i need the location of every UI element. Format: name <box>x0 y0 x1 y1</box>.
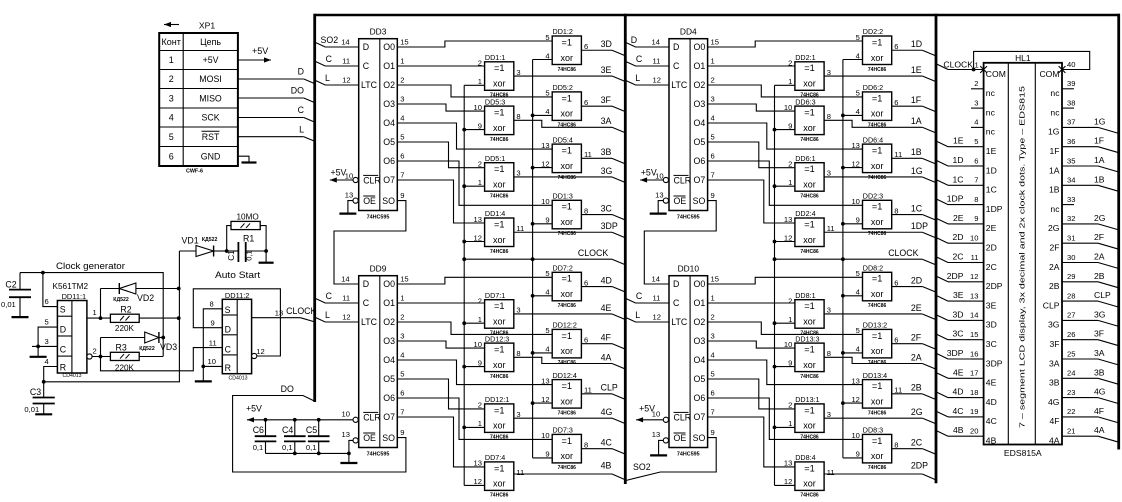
svg-text:74HC86: 74HC86 <box>868 67 887 73</box>
svg-text:nc: nc <box>986 107 996 117</box>
bus border 1 (programmer / section 1) <box>313 14 316 402</box>
svg-text:3E: 3E <box>601 65 612 75</box>
svg-text:DD1:1: DD1:1 <box>485 53 505 62</box>
wire net 4F <box>581 343 612 345</box>
svg-text:LTC: LTC <box>671 80 688 90</box>
svg-text:3: 3 <box>516 68 520 77</box>
svg-text:L: L <box>299 124 304 134</box>
flip-flop DD11.2 <box>222 299 251 373</box>
svg-text:12: 12 <box>541 395 549 404</box>
wire net C to DD10 C input <box>625 298 669 303</box>
wire DD3 O3 to gate <box>397 104 484 111</box>
svg-text:3: 3 <box>711 94 715 103</box>
svg-text:S: S <box>60 305 66 315</box>
svg-text:DD11:1: DD11:1 <box>62 292 87 301</box>
svg-text:12: 12 <box>851 159 859 168</box>
svg-text:=1: =1 <box>562 436 572 446</box>
svg-text:2: 2 <box>93 347 97 356</box>
svg-text:DD6:4: DD6:4 <box>863 135 883 144</box>
node R2 right <box>177 316 181 320</box>
svg-text:35: 35 <box>1067 156 1075 165</box>
svg-text:12: 12 <box>851 395 859 404</box>
wire clock bus right column <box>532 60 534 458</box>
svg-text:=1: =1 <box>562 37 572 47</box>
resistor R1 10MO <box>227 226 231 251</box>
svg-text:D: D <box>225 325 231 335</box>
svg-text:O7: O7 <box>383 412 395 422</box>
xor gate DD2:3 74HC86 <box>863 200 892 229</box>
svg-text:C6: C6 <box>253 425 264 435</box>
xor gate DD2:2 74HC86 <box>863 36 892 65</box>
svg-text:=1: =1 <box>494 63 504 73</box>
diode VD3 KD522 <box>101 337 145 339</box>
svg-text:10: 10 <box>655 172 663 181</box>
svg-text:xor: xor <box>493 479 506 489</box>
svg-text:R: R <box>60 363 66 373</box>
svg-text:xor: xor <box>561 109 574 119</box>
svg-text:SO: SO <box>382 433 395 443</box>
svg-text:xor: xor <box>493 79 506 89</box>
xor gate DD5:3 74HC86 <box>485 106 514 135</box>
svg-text:8: 8 <box>210 300 214 309</box>
svg-text:4A: 4A <box>601 352 612 362</box>
svg-text:7: 7 <box>711 170 715 179</box>
capacitor C5 0,1 <box>318 420 320 436</box>
svg-text:CLOCK: CLOCK <box>286 306 316 316</box>
diode VD1 KD522 <box>179 250 196 252</box>
svg-text:9: 9 <box>711 428 715 437</box>
svg-text:CLR: CLR <box>674 175 692 185</box>
svg-text:0,01: 0,01 <box>24 405 39 414</box>
svg-text:КД522: КД522 <box>202 237 218 243</box>
wire DD11.2 pin 8 S <box>203 309 222 367</box>
svg-text:2: 2 <box>711 75 715 84</box>
svg-text:1C: 1C <box>953 174 964 184</box>
svg-text:xor: xor <box>803 79 816 89</box>
svg-text:2A: 2A <box>1094 252 1105 262</box>
svg-text:1F: 1F <box>1094 136 1104 146</box>
svg-text:2D: 2D <box>953 232 964 242</box>
svg-text:1: 1 <box>788 315 792 324</box>
svg-text:4D: 4D <box>953 387 964 397</box>
svg-text:74HC86: 74HC86 <box>800 194 819 200</box>
svg-text:12: 12 <box>342 312 350 321</box>
svg-text:=1: =1 <box>872 202 882 212</box>
svg-text:O4: O4 <box>694 355 706 365</box>
wire net 2A <box>824 357 922 363</box>
svg-text:11: 11 <box>827 468 835 477</box>
svg-text:C: C <box>636 54 643 64</box>
svg-text:9: 9 <box>400 428 404 437</box>
svg-text:O5: O5 <box>383 137 395 147</box>
svg-text:SO: SO <box>382 196 395 206</box>
svg-text:2DP: 2DP <box>986 281 1003 291</box>
svg-text:11: 11 <box>653 293 661 302</box>
svg-text:DD11:2: DD11:2 <box>225 291 250 300</box>
svg-text:xor: xor <box>803 180 816 190</box>
svg-text:3A: 3A <box>1049 358 1060 368</box>
svg-text:20: 20 <box>970 427 978 436</box>
wire net 2F <box>892 343 923 345</box>
ground bypass rail <box>348 453 350 463</box>
wire CLOCK net <box>775 258 923 260</box>
svg-text:8: 8 <box>827 112 831 121</box>
svg-text:DD5:4: DD5:4 <box>553 135 573 144</box>
svg-text:GND: GND <box>201 151 221 161</box>
wire net 4D <box>581 286 612 288</box>
svg-text:1: 1 <box>478 315 482 324</box>
svg-text:D: D <box>673 42 679 52</box>
svg-text:4F: 4F <box>601 332 612 342</box>
wire DD11.2 output 13 CLOCK <box>252 317 301 319</box>
svg-text:1DP: 1DP <box>986 204 1003 214</box>
wire DD11.2 pin 9 D feedback <box>193 289 280 356</box>
wire DD11.2 output 12 bubble <box>252 353 257 358</box>
svg-text:OE: OE <box>674 433 687 443</box>
svg-text:CLR: CLR <box>363 175 381 185</box>
svg-text:1E: 1E <box>953 136 964 146</box>
svg-text:15: 15 <box>400 274 408 283</box>
ground XP1 <box>242 161 257 163</box>
svg-text:xor: xor <box>871 451 884 461</box>
svg-text:D: D <box>673 279 679 289</box>
wire XP1 net L to border <box>238 136 304 138</box>
resistor R2 220K <box>110 314 139 322</box>
svg-text:1A: 1A <box>911 116 922 126</box>
wire DD3 O4 to gate <box>397 123 552 149</box>
svg-text:DO: DO <box>291 86 304 96</box>
svg-text:O7: O7 <box>694 175 706 185</box>
svg-text:2E: 2E <box>986 223 997 233</box>
wire net CLP <box>581 393 612 395</box>
svg-text:O5: O5 <box>383 374 395 384</box>
svg-text:3: 3 <box>400 331 404 340</box>
svg-text:=1: =1 <box>562 274 572 284</box>
wire net L to LTC input <box>625 80 669 85</box>
svg-text:DD7:1: DD7:1 <box>485 291 505 300</box>
svg-text:13: 13 <box>970 291 978 300</box>
svg-text:O5: O5 <box>694 137 706 147</box>
svg-text:DD6:2: DD6:2 <box>863 83 883 92</box>
svg-text:3DP: 3DP <box>947 348 964 358</box>
capacitor C1 <box>227 250 239 252</box>
wire DD9 O0 to gate <box>397 277 552 284</box>
wire DD9 O1 to gate <box>397 302 484 304</box>
diode VD2 KD522 <box>101 288 120 290</box>
svg-text:10MO: 10MO <box>237 212 259 221</box>
svg-text:C: C <box>636 291 643 301</box>
svg-text:2D: 2D <box>911 275 922 285</box>
svg-text:9: 9 <box>211 319 215 328</box>
svg-text:74HC86: 74HC86 <box>868 410 887 416</box>
xor gate DD7:4 74HC86 <box>485 462 514 491</box>
svg-text:D: D <box>363 279 369 289</box>
svg-text:DD2:1: DD2:1 <box>795 53 815 62</box>
svg-text:2F: 2F <box>1049 243 1059 253</box>
svg-text:5: 5 <box>974 137 978 146</box>
svg-text:6: 6 <box>894 335 898 344</box>
svg-text:VD2: VD2 <box>137 293 154 303</box>
xor gate DD1:1 74HC86 <box>485 62 514 91</box>
xor gate DD2:1 74HC86 <box>795 62 824 91</box>
wire net C to C input <box>315 61 359 66</box>
svg-text:6: 6 <box>584 98 588 107</box>
svg-text:4C: 4C <box>953 406 964 416</box>
capacitor C6 0,1 <box>265 420 267 436</box>
svg-text:36: 36 <box>1067 137 1075 146</box>
svg-text:+5V: +5V <box>203 55 219 65</box>
svg-text:MOSI: MOSI <box>199 74 221 84</box>
svg-text:DD9: DD9 <box>370 264 387 274</box>
svg-text:VD3: VD3 <box>160 342 177 352</box>
display connector HL1 EDS815 box <box>984 63 1062 445</box>
bus border 3 (section 2 / display) <box>935 14 938 484</box>
svg-text:L: L <box>635 310 640 320</box>
svg-text:1: 1 <box>975 61 979 70</box>
svg-text:220K: 220K <box>115 324 135 333</box>
svg-text:=1: =1 <box>562 331 572 341</box>
svg-text:=1: =1 <box>562 381 572 391</box>
svg-text:6: 6 <box>711 151 715 160</box>
ground DD11.2 <box>202 366 204 381</box>
wire DD11.1 pin 4 R <box>44 367 58 382</box>
svg-text:EDS815A: EDS815A <box>1004 448 1042 458</box>
svg-text:3: 3 <box>711 331 715 340</box>
wire net L to DD9 LTC input <box>315 317 359 322</box>
svg-text:2C: 2C <box>986 262 997 272</box>
svg-text:DD8:4: DD8:4 <box>795 453 815 462</box>
svg-text:2G: 2G <box>911 407 923 417</box>
wire DD4 O4 to gate <box>708 123 863 149</box>
svg-text:3: 3 <box>827 68 831 77</box>
svg-text:=1: =1 <box>494 405 504 415</box>
svg-text:=1: =1 <box>804 219 814 229</box>
svg-text:O0: O0 <box>694 42 706 52</box>
wire DD9 O4 to gate <box>397 360 552 385</box>
node 2 <box>99 355 103 359</box>
svg-text:9: 9 <box>974 214 978 223</box>
svg-text:=1: =1 <box>872 146 882 156</box>
connector XP1 table <box>159 33 238 166</box>
xor gate DD13:1 74HC86 <box>795 404 824 433</box>
wire net 2D <box>892 286 923 288</box>
svg-text:29: 29 <box>1067 272 1075 281</box>
svg-text:1DP: 1DP <box>947 194 964 204</box>
wire +5V rail with bypass caps <box>353 417 358 422</box>
svg-text:4C: 4C <box>986 416 997 426</box>
svg-text:14: 14 <box>652 37 660 46</box>
svg-text:37: 37 <box>1067 118 1075 127</box>
wire net 2B <box>892 393 923 395</box>
svg-text:6: 6 <box>894 278 898 287</box>
svg-text:13: 13 <box>541 376 549 385</box>
svg-text:xor: xor <box>871 346 884 356</box>
wire node 1 to VD2 <box>100 289 102 319</box>
svg-text:2: 2 <box>711 312 715 321</box>
svg-text:DD8:3: DD8:3 <box>863 426 883 435</box>
svg-text:O1: O1 <box>694 298 706 308</box>
svg-text:4F: 4F <box>1094 406 1104 416</box>
svg-text:=1: =1 <box>494 219 504 229</box>
svg-text:74HC86: 74HC86 <box>800 137 819 143</box>
wire net 1F <box>892 105 923 107</box>
xor gate DD7:1 74HC86 <box>485 300 514 329</box>
svg-text:4: 4 <box>45 357 49 366</box>
xor gate DD13:3 74HC86 <box>795 343 824 372</box>
svg-text:38: 38 <box>1067 98 1075 107</box>
svg-text:CLP: CLP <box>601 383 618 393</box>
svg-text:xor: xor <box>871 289 884 299</box>
wire net 1A <box>824 120 922 127</box>
svg-text:74HC86: 74HC86 <box>868 175 887 181</box>
svg-text:CLP: CLP <box>1043 300 1060 310</box>
svg-text:DD12:3: DD12:3 <box>485 334 509 343</box>
svg-text:2F: 2F <box>1094 232 1104 242</box>
wire DD11.1 pin 6 S <box>43 273 58 307</box>
xor gate DD6:4 74HC86 <box>863 144 892 173</box>
svg-text:xor: xor <box>493 421 506 431</box>
svg-text:3F: 3F <box>1094 329 1104 339</box>
svg-text:74HC86: 74HC86 <box>490 249 509 255</box>
svg-text:3: 3 <box>827 306 831 315</box>
svg-text:40: 40 <box>1067 60 1075 69</box>
wire DD4 O2 to gate <box>708 85 863 97</box>
svg-text:3G: 3G <box>1048 320 1060 330</box>
svg-text:3: 3 <box>516 169 520 178</box>
svg-text:13: 13 <box>851 141 859 150</box>
svg-text:18: 18 <box>970 388 978 397</box>
svg-text:6: 6 <box>584 278 588 287</box>
svg-text:3DP: 3DP <box>601 221 618 231</box>
resistor R3 220K <box>110 352 139 360</box>
svg-text:CLP: CLP <box>1094 290 1111 300</box>
svg-text:7: 7 <box>400 407 404 416</box>
svg-text:3: 3 <box>974 98 978 107</box>
svg-text:14: 14 <box>341 37 349 46</box>
svg-text:DD13:2: DD13:2 <box>863 321 887 330</box>
svg-text:DD13:4: DD13:4 <box>863 371 887 380</box>
svg-text:2F: 2F <box>911 332 922 342</box>
svg-text:5: 5 <box>711 132 715 141</box>
svg-text:9: 9 <box>400 191 404 200</box>
wire DD11.1 pin 5 D <box>38 327 57 346</box>
svg-text:DD12:1: DD12:1 <box>485 395 509 404</box>
wire bottom rail <box>44 251 180 382</box>
svg-text:+5V: +5V <box>246 404 262 414</box>
svg-text:O0: O0 <box>383 279 395 289</box>
arrow left above XP1 <box>164 24 179 26</box>
svg-text:=1: =1 <box>804 463 814 473</box>
svg-text:74HC86: 74HC86 <box>490 493 509 497</box>
wire net 4E <box>514 313 612 315</box>
wire DD10 OE to ground <box>663 438 668 443</box>
svg-text:1B: 1B <box>1094 174 1105 184</box>
svg-text:0,1: 0,1 <box>245 250 254 261</box>
svg-text:6: 6 <box>169 151 174 161</box>
svg-text:1G: 1G <box>911 166 923 176</box>
svg-text:O4: O4 <box>383 355 395 365</box>
svg-text:O4: O4 <box>694 118 706 128</box>
svg-text:6: 6 <box>400 388 404 397</box>
svg-text:2: 2 <box>478 297 482 306</box>
svg-text:R3: R3 <box>116 343 127 353</box>
svg-text:COM: COM <box>1039 69 1059 79</box>
svg-text:xor: xor <box>803 123 816 133</box>
ground OE <box>339 213 356 215</box>
wire CLOCK net <box>464 258 612 260</box>
svg-text:O6: O6 <box>383 156 395 166</box>
xor gate DD12:1 74HC86 <box>485 404 514 433</box>
svg-text:L: L <box>325 73 330 83</box>
wire DD4 O7 to gate <box>708 180 795 223</box>
svg-text:1F: 1F <box>911 95 922 105</box>
svg-text:DD10: DD10 <box>678 264 700 274</box>
svg-text:C: C <box>326 54 333 64</box>
svg-text:C: C <box>298 105 305 115</box>
xor gate DD13:4 74HC86 <box>863 380 892 409</box>
svg-text:=1: =1 <box>804 108 814 118</box>
wire net 3A <box>514 120 612 127</box>
svg-text:HL1: HL1 <box>1015 53 1031 63</box>
xor gate DD8:1 74HC86 <box>795 300 824 329</box>
svg-text:11: 11 <box>342 56 350 65</box>
node S rail junction <box>41 271 45 275</box>
xor gate DD12:4 74HC86 <box>552 380 581 409</box>
svg-text:LTC: LTC <box>671 317 688 327</box>
svg-text:DD1:2: DD1:2 <box>553 27 573 36</box>
svg-text:15: 15 <box>400 37 408 46</box>
svg-text:6: 6 <box>45 297 49 306</box>
shift register DD10 74HC595 <box>669 276 708 448</box>
svg-text:SO: SO <box>693 433 706 443</box>
wire net 1B <box>892 157 923 159</box>
svg-text:КД522: КД522 <box>113 297 129 303</box>
wire net C to DD9 C input <box>315 298 359 303</box>
wire node 2 to DD11.2 C <box>101 348 223 371</box>
svg-text:13: 13 <box>345 190 353 199</box>
svg-text:4B: 4B <box>986 436 997 446</box>
svg-text:14: 14 <box>652 274 660 283</box>
svg-text:DD4: DD4 <box>680 27 697 37</box>
svg-text:32: 32 <box>1067 214 1075 223</box>
flip-flop DD11.1 K561TM2 <box>57 301 87 374</box>
svg-text:3D: 3D <box>986 320 997 330</box>
svg-text:16: 16 <box>970 349 978 358</box>
wire clock bus left column <box>463 85 465 485</box>
svg-text:8: 8 <box>584 440 588 449</box>
svg-text:5: 5 <box>400 132 404 141</box>
node VD3 right <box>161 336 165 340</box>
svg-text:74HC86: 74HC86 <box>490 374 509 380</box>
wire net 1D <box>892 49 923 51</box>
svg-text:12: 12 <box>342 75 350 84</box>
svg-text:74HC595: 74HC595 <box>367 451 390 457</box>
svg-text:=1: =1 <box>494 108 504 118</box>
svg-text:3E: 3E <box>953 290 964 300</box>
svg-text:4B: 4B <box>953 425 964 435</box>
svg-text:LTC: LTC <box>361 317 378 327</box>
ground OE <box>650 213 667 215</box>
wire XP1 GND <box>238 156 249 162</box>
svg-text:6: 6 <box>400 151 404 160</box>
svg-text:1D: 1D <box>986 165 997 175</box>
svg-text:D: D <box>631 35 637 45</box>
svg-text:DD2:3: DD2:3 <box>863 192 883 201</box>
svg-text:10: 10 <box>970 234 978 243</box>
svg-text:0,1: 0,1 <box>253 443 264 452</box>
svg-text:XP1: XP1 <box>199 21 215 31</box>
xor gate DD6:1 74HC86 <box>795 163 824 192</box>
